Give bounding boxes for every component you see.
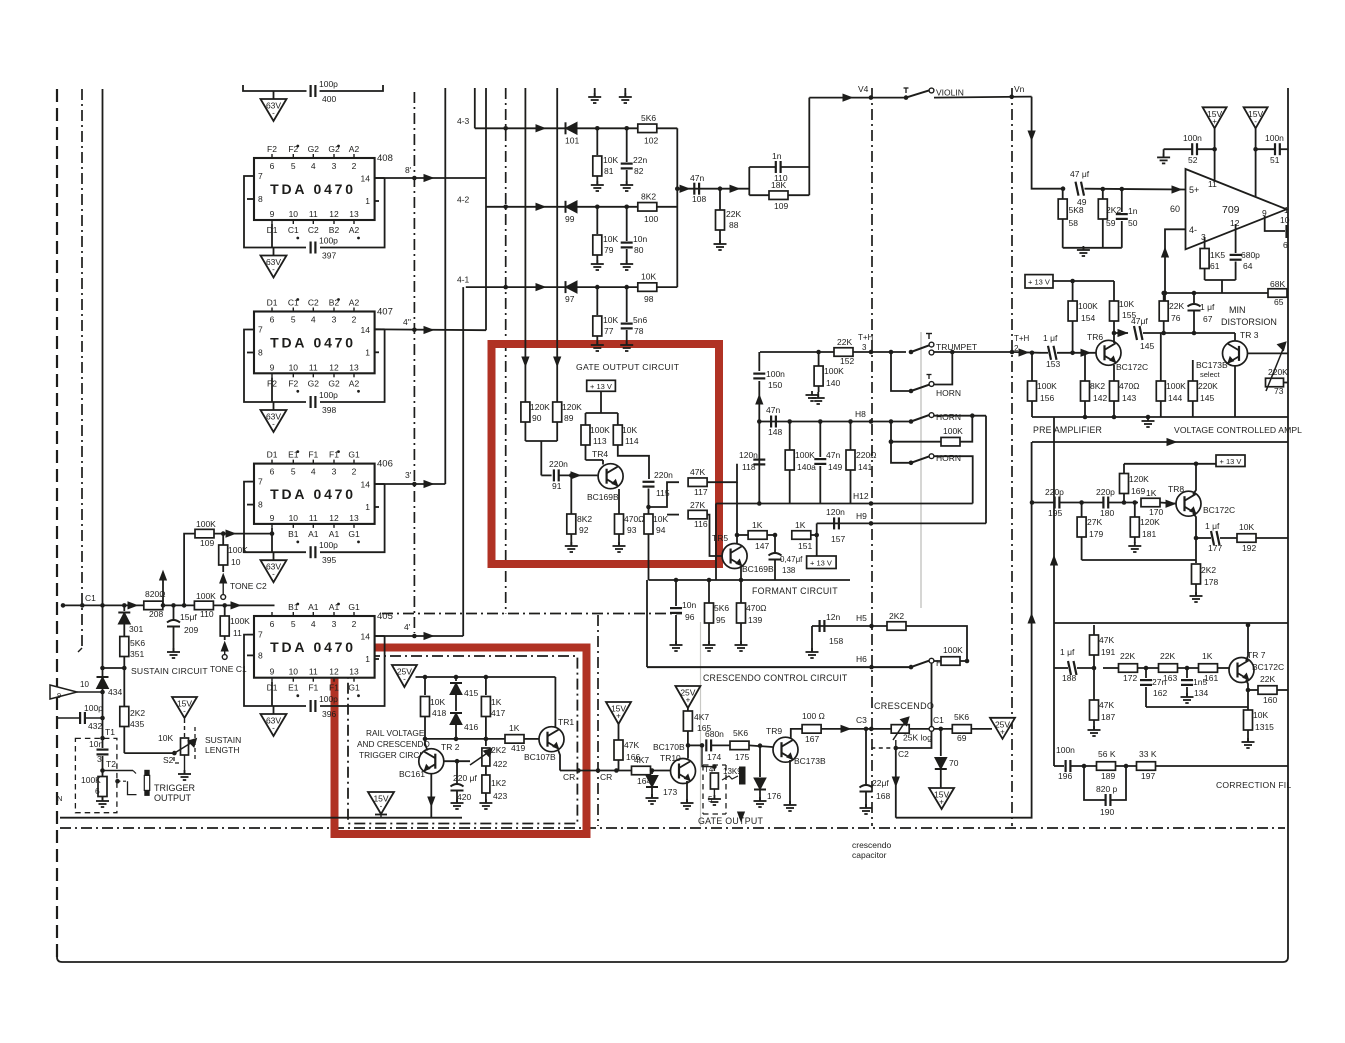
svg-text:DISTORSION: DISTORSION xyxy=(1221,317,1277,327)
svg-text:G2: G2 xyxy=(308,378,320,388)
ground under 10K 77 xyxy=(591,341,604,351)
wire gate input join xyxy=(525,441,557,475)
svg-text:10: 10 xyxy=(289,362,299,372)
IC 405 pin9 stub wire xyxy=(271,682,273,706)
svg-text:A2: A2 xyxy=(349,298,360,308)
resistor 27K 116 xyxy=(667,500,708,529)
svg-text:TR6: TR6 xyxy=(1087,332,1103,342)
wire sustain jog xyxy=(100,666,126,671)
text CRESCENDO xyxy=(874,701,934,711)
wire vca in xyxy=(1143,331,1235,336)
resistor 1K 151 xyxy=(767,520,819,551)
svg-text:A2: A2 xyxy=(349,225,360,235)
svg-text:G1: G1 xyxy=(348,450,360,460)
IC 406 pin 7 xyxy=(247,477,263,487)
svg-text:151: 151 xyxy=(798,541,812,551)
wire S2 line xyxy=(124,752,174,754)
svg-text:1: 1 xyxy=(365,196,370,206)
resistor 120K 169 xyxy=(1120,464,1150,503)
wire TR10 base xyxy=(660,770,670,772)
svg-text:A1: A1 xyxy=(329,529,340,539)
svg-text:CRESCENDO: CRESCENDO xyxy=(874,701,934,711)
svg-text:109: 109 xyxy=(774,201,788,211)
capacitor 100p 400 xyxy=(311,79,339,104)
resistor 100K 140 xyxy=(814,350,844,392)
svg-text:1K: 1K xyxy=(1146,488,1157,498)
svg-text:100p: 100p xyxy=(319,390,338,400)
text PRE AMPLIFIER xyxy=(1033,425,1102,435)
svg-text:470Ω: 470Ω xyxy=(624,514,645,524)
ground 181 xyxy=(1128,542,1141,552)
capacitor 47n 149 xyxy=(814,419,842,503)
svg-text:192: 192 xyxy=(1242,543,1256,553)
highlight box GATE OUTPUT CIRCUIT xyxy=(492,344,720,564)
svg-text:108: 108 xyxy=(692,194,706,204)
svg-text:52: 52 xyxy=(1188,155,1198,165)
wire TR1 emitter xyxy=(558,750,560,771)
svg-text:100K: 100K xyxy=(230,616,250,626)
svg-text:69: 69 xyxy=(957,733,967,743)
wire corr top xyxy=(1073,624,1075,626)
svg-text:B1: B1 xyxy=(288,529,299,539)
svg-text:H6: H6 xyxy=(856,654,867,664)
svg-text:120n: 120n xyxy=(826,507,845,517)
wire vca link xyxy=(1032,439,1288,446)
svg-text:10n: 10n xyxy=(89,739,103,749)
svg-text:27K: 27K xyxy=(1087,517,1102,527)
transistor TR8 BC172C xyxy=(1168,484,1235,516)
svg-text:OUTPUT: OUTPUT xyxy=(154,793,192,803)
svg-text:A1: A1 xyxy=(308,529,319,539)
svg-text:10K: 10K xyxy=(1119,299,1134,309)
wire rail top xyxy=(416,675,556,680)
text MIN DISTORSION xyxy=(1221,305,1277,327)
svg-text:120K: 120K xyxy=(1129,474,1149,484)
trimmer 13K9 xyxy=(700,743,719,799)
resistor 22K 152 xyxy=(834,337,854,366)
svg-text:140a: 140a xyxy=(797,462,816,472)
diode 416 xyxy=(450,713,478,739)
IC 405 top pins xyxy=(270,602,360,629)
svg-text:47K: 47K xyxy=(1099,635,1114,645)
ground 100n52 xyxy=(1157,153,1170,163)
svg-text:98: 98 xyxy=(644,294,654,304)
svg-text:T+H: T+H xyxy=(858,333,874,342)
svg-text:420: 420 xyxy=(457,792,471,802)
capacitor 100n 52 xyxy=(1164,133,1217,165)
svg-text:G2: G2 xyxy=(308,144,320,154)
svg-text:47μf: 47μf xyxy=(1131,316,1148,326)
IC 408 pin 8 xyxy=(247,194,263,204)
resistor 120K 181 xyxy=(1130,503,1160,544)
svg-text:BC170B: BC170B xyxy=(653,742,685,752)
svg-text:V4: V4 xyxy=(858,84,869,94)
text SUSTAIN LENGTH xyxy=(205,735,241,755)
svg-text:2K2: 2K2 xyxy=(130,708,145,718)
page right border xyxy=(1283,88,1288,962)
power -63V under IC 405 xyxy=(261,706,287,736)
svg-text:120K: 120K xyxy=(1140,517,1160,527)
svg-text:MIN: MIN xyxy=(1229,305,1246,315)
bus wire x1032 mid xyxy=(1031,442,1033,818)
wire preamp out xyxy=(1114,330,1128,337)
wire TR9 base xyxy=(749,743,773,748)
svg-text:220 μf: 220 μf xyxy=(453,773,477,783)
svg-text:-: - xyxy=(272,109,275,118)
wire 197 out xyxy=(1156,765,1289,767)
IC 407 pin9 stub wire xyxy=(271,377,273,402)
svg-text:100p: 100p xyxy=(84,703,103,713)
svg-text:25K log: 25K log xyxy=(903,733,932,743)
svg-text:423: 423 xyxy=(493,791,507,801)
IC 407 pin marks xyxy=(296,298,360,393)
svg-text:22K: 22K xyxy=(1120,651,1135,661)
svg-text:100K: 100K xyxy=(1166,381,1186,391)
svg-text:-: - xyxy=(1254,117,1257,126)
power 15V bottom xyxy=(368,792,394,818)
svg-text:190: 190 xyxy=(1100,807,1114,817)
svg-text:11: 11 xyxy=(309,667,318,677)
svg-text:11: 11 xyxy=(309,362,318,372)
svg-text:195: 195 xyxy=(1048,508,1062,518)
svg-text:TR 7: TR 7 xyxy=(1247,650,1266,660)
svg-text:BC161: BC161 xyxy=(399,769,425,779)
IC TDA 0470 (408) box xyxy=(254,153,393,220)
svg-text:68K: 68K xyxy=(1270,279,1285,289)
wire gate cap line xyxy=(688,744,704,746)
wire 191 top xyxy=(1093,624,1095,626)
svg-text:9: 9 xyxy=(270,513,275,523)
wire TR10 collector xyxy=(686,743,691,758)
power +15V opamp xyxy=(1203,107,1227,128)
node C1 xyxy=(929,715,944,731)
text CORRECTION FILTER xyxy=(1216,780,1291,790)
svg-text:64: 64 xyxy=(1243,261,1253,271)
svg-text:+: + xyxy=(939,798,944,807)
svg-text:470Ω: 470Ω xyxy=(1119,381,1140,391)
svg-text:152: 152 xyxy=(840,356,854,366)
svg-text:100K: 100K xyxy=(228,545,248,555)
svg-text:S2: S2 xyxy=(163,755,174,765)
svg-text:1 μf: 1 μf xyxy=(1205,521,1220,531)
diode 99 xyxy=(565,201,577,224)
resistor 120K 89 xyxy=(553,402,582,441)
svg-text:CR: CR xyxy=(563,772,575,782)
capacitor 220p 195 xyxy=(1045,487,1064,518)
svg-text:14: 14 xyxy=(361,325,371,335)
transistor TR1 BC107B xyxy=(524,717,574,762)
svg-text:197: 197 xyxy=(1141,771,1155,781)
resistor 4K7 164 xyxy=(632,755,652,786)
diode 101 xyxy=(565,122,579,145)
resistor 100K 140a xyxy=(785,419,816,503)
resistor 100R 167 xyxy=(802,711,825,744)
svg-text:8: 8 xyxy=(258,500,263,510)
svg-text:Vn: Vn xyxy=(1014,84,1025,94)
svg-text:+: + xyxy=(1212,117,1217,126)
svg-text:-: - xyxy=(272,570,275,579)
wire 161-TR7 xyxy=(1218,667,1230,669)
resistor 22K 172 xyxy=(1103,651,1138,683)
resistor 8K2 100 xyxy=(638,191,659,224)
IC 408 pin marks xyxy=(296,145,360,240)
resistor 470R 143 xyxy=(1110,381,1140,417)
svg-text:10: 10 xyxy=(231,557,241,567)
svg-text:12: 12 xyxy=(329,513,339,523)
resistor 22K 88 xyxy=(716,186,742,244)
ground 187 xyxy=(1088,726,1101,736)
svg-text:C2: C2 xyxy=(308,225,319,235)
svg-text:3: 3 xyxy=(332,161,337,171)
svg-text:TR9: TR9 xyxy=(766,726,782,736)
wire violin line xyxy=(809,84,906,101)
power 25V gate xyxy=(675,686,700,708)
resistor 2K2 435 xyxy=(120,707,146,754)
svg-text:139: 139 xyxy=(748,615,762,625)
svg-text:100p: 100p xyxy=(319,236,338,246)
svg-text:F2: F2 xyxy=(288,378,298,388)
svg-text:175: 175 xyxy=(735,752,749,762)
svg-text:100K: 100K xyxy=(590,425,610,435)
wire T+H2 arrow xyxy=(1012,349,1041,356)
svg-text:170: 170 xyxy=(1149,507,1163,517)
svg-text:1K: 1K xyxy=(491,697,502,707)
svg-text:140: 140 xyxy=(826,378,840,388)
svg-text:1 μf: 1 μf xyxy=(1060,647,1075,657)
svg-text:100K: 100K xyxy=(795,450,815,460)
svg-text:8: 8 xyxy=(258,194,263,204)
svg-text:11: 11 xyxy=(1208,179,1217,189)
svg-text:BC169B: BC169B xyxy=(587,492,619,502)
svg-text:G1: G1 xyxy=(348,602,360,612)
pot 220K 73 xyxy=(1266,342,1289,396)
IC 408 pin 14 xyxy=(361,174,385,184)
svg-text:4: 4 xyxy=(311,161,316,171)
svg-text:13: 13 xyxy=(349,362,359,372)
text N xyxy=(57,794,62,803)
svg-text:90: 90 xyxy=(532,413,542,423)
wire TR2 base wiper xyxy=(443,759,470,764)
partition dash-dot line x598 xyxy=(597,615,599,826)
capacitor 47uF 49 xyxy=(1070,169,1090,207)
svg-text:22n: 22n xyxy=(633,155,647,165)
svg-text:1: 1 xyxy=(365,502,370,512)
ground under 22K 88 xyxy=(714,240,727,250)
ground under 10K 81 xyxy=(591,181,604,191)
svg-text:432: 432 xyxy=(88,721,102,731)
svg-text:CR: CR xyxy=(600,772,612,782)
svg-text:9: 9 xyxy=(270,667,275,677)
svg-text:8K2: 8K2 xyxy=(577,514,592,524)
ground stub top b xyxy=(619,88,632,103)
transistor TR10 BC170B xyxy=(653,742,696,784)
rail-voltage module dash-dot box xyxy=(348,656,577,824)
wire TR8 collector xyxy=(1193,464,1196,495)
svg-text:176: 176 xyxy=(767,791,781,801)
wire block divider xyxy=(1054,622,1288,624)
svg-text:187: 187 xyxy=(1101,712,1115,722)
svg-text:8: 8 xyxy=(258,348,263,358)
switch HORN 1 xyxy=(909,375,961,399)
diode 70 xyxy=(935,729,959,788)
svg-text:47n: 47n xyxy=(690,173,704,183)
ground 12n158 xyxy=(806,626,819,658)
svg-text:T1: T1 xyxy=(105,727,115,737)
resistor 47K 191 xyxy=(1090,625,1116,668)
svg-text:160: 160 xyxy=(1263,695,1277,705)
resistor 10K 94 xyxy=(644,514,668,560)
svg-text:1: 1 xyxy=(1284,205,1289,215)
svg-text:100p: 100p xyxy=(319,79,338,89)
svg-text:3: 3 xyxy=(332,467,337,477)
svg-text:10: 10 xyxy=(289,513,299,523)
wire TR4 collector xyxy=(586,445,604,465)
svg-text:A1: A1 xyxy=(308,602,319,612)
svg-text:138: 138 xyxy=(782,566,796,575)
svg-text:680p: 680p xyxy=(1241,250,1260,260)
wire TR8 emitter xyxy=(1193,513,1198,560)
diode 97 xyxy=(565,281,577,304)
wire to 25V xyxy=(971,728,992,730)
resistor 10K 155 xyxy=(1110,281,1137,333)
wire TR3 emitter xyxy=(1230,363,1235,417)
bus wire x1054 xyxy=(1051,417,1058,766)
svg-text:5n6: 5n6 xyxy=(633,315,647,325)
wire preamp rail xyxy=(1053,279,1114,284)
IC 408 pin 1 xyxy=(365,196,379,206)
capacitor 1n5 134 xyxy=(1181,668,1208,698)
switch VIOLIN xyxy=(904,88,964,100)
wire filter bottom xyxy=(1063,248,1122,250)
capacitor 10n 3 xyxy=(89,738,109,770)
pot 25K log xyxy=(873,717,932,743)
svg-text:1n: 1n xyxy=(1128,206,1138,216)
node 4-1 line xyxy=(457,275,677,291)
svg-text:65: 65 xyxy=(1274,297,1284,307)
svg-text:BC169B: BC169B xyxy=(742,564,774,574)
resistor 10K 79 xyxy=(593,205,619,265)
capacitor 220n 91 xyxy=(549,459,568,491)
svg-text:179: 179 xyxy=(1089,529,1103,539)
svg-text:416: 416 xyxy=(464,722,478,732)
ground TR10 xyxy=(681,799,694,809)
svg-text:58: 58 xyxy=(1069,218,1079,228)
wire TR2 emitter xyxy=(425,739,428,751)
wire 196-189 xyxy=(1070,764,1096,769)
svg-text:61: 61 xyxy=(1210,261,1220,271)
IC 407 pin 1 xyxy=(365,347,379,357)
diode 176 xyxy=(754,746,781,801)
svg-text:67: 67 xyxy=(1203,314,1213,324)
svg-text:H12: H12 xyxy=(853,491,869,501)
svg-text:93: 93 xyxy=(627,525,637,535)
capacitor 1n 110 xyxy=(772,151,788,183)
wire TR9 collector xyxy=(791,729,802,739)
svg-text:102: 102 xyxy=(644,135,658,145)
ground under 10n 96 xyxy=(670,641,683,651)
svg-text:99: 99 xyxy=(565,214,575,224)
capacitor 47n 148 xyxy=(766,405,782,437)
svg-text:22K: 22K xyxy=(726,209,741,219)
svg-text:6: 6 xyxy=(270,315,275,325)
svg-text:LENGTH: LENGTH xyxy=(205,745,239,755)
wire TR1 collector xyxy=(554,677,556,728)
svg-text:C1: C1 xyxy=(288,225,299,235)
svg-text:22K: 22K xyxy=(1160,651,1175,661)
svg-text:88: 88 xyxy=(729,220,739,230)
svg-text:10K: 10K xyxy=(641,272,656,282)
svg-text:91: 91 xyxy=(552,481,562,491)
diode 415 xyxy=(450,677,478,711)
wire pin4 feedback xyxy=(1162,229,1186,301)
wire arrow branch a xyxy=(160,571,167,608)
svg-text:77: 77 xyxy=(604,326,614,336)
svg-text:14: 14 xyxy=(361,632,371,642)
wire corr bottom xyxy=(1054,765,1064,767)
IC 406 pin 1 xyxy=(365,502,379,512)
svg-text:A2: A2 xyxy=(349,144,360,154)
svg-text:220p: 220p xyxy=(1096,487,1115,497)
ground 22uF 168 xyxy=(860,804,873,814)
capacitor 100p 398 xyxy=(311,390,339,415)
svg-text:47n: 47n xyxy=(766,405,780,415)
svg-text:C2: C2 xyxy=(308,298,319,308)
wire 15Vp rail xyxy=(1214,128,1216,180)
wire violin out xyxy=(934,84,1032,99)
svg-text:11: 11 xyxy=(309,513,318,523)
resistor 10K 114 xyxy=(613,425,639,446)
wire 47K117 branch xyxy=(649,482,680,507)
svg-text:422: 422 xyxy=(493,759,507,769)
wire TR6 emitter xyxy=(1113,363,1114,381)
svg-text:150: 150 xyxy=(768,380,782,390)
svg-text:396: 396 xyxy=(322,709,336,719)
svg-text:T+H: T+H xyxy=(1014,334,1030,343)
svg-text:TR1: TR1 xyxy=(558,717,574,727)
svg-text:TDA 0470: TDA 0470 xyxy=(270,486,356,502)
svg-text:N: N xyxy=(57,794,62,803)
svg-text:168: 168 xyxy=(876,791,890,801)
svg-text:4: 4 xyxy=(311,315,316,325)
svg-text:100 Ω: 100 Ω xyxy=(802,711,825,721)
resistor 1K2 423 xyxy=(482,775,508,803)
svg-text:10K: 10K xyxy=(603,234,618,244)
svg-text:120n: 120n xyxy=(739,450,758,460)
svg-text:100n: 100n xyxy=(1056,745,1075,755)
ground under cap 80 xyxy=(620,260,633,270)
svg-text:SUSTAIN CIRCUIT: SUSTAIN CIRCUIT xyxy=(131,666,208,676)
ground under 8K2 92 xyxy=(565,542,578,552)
svg-text:110: 110 xyxy=(200,609,214,619)
svg-text:G2: G2 xyxy=(328,378,340,388)
svg-text:143: 143 xyxy=(1122,393,1136,403)
wire TR7 collector xyxy=(1246,623,1251,661)
svg-text:144: 144 xyxy=(1168,393,1182,403)
capacitor 680n 174 xyxy=(705,729,724,762)
svg-text:220K: 220K xyxy=(1198,381,1218,391)
wire feedback 162 xyxy=(1146,706,1248,708)
wire horn3 out xyxy=(934,456,973,503)
wire 120K89 feed xyxy=(554,357,561,412)
svg-text:14: 14 xyxy=(361,174,371,184)
svg-text:94: 94 xyxy=(656,525,666,535)
svg-text:TR 3: TR 3 xyxy=(1240,330,1259,340)
svg-text:3: 3 xyxy=(332,619,337,629)
svg-text:TONE C1: TONE C1 xyxy=(210,664,247,674)
svg-text:3: 3 xyxy=(97,754,102,764)
capacitor 15uF 209 xyxy=(167,605,198,652)
jack trigger output xyxy=(144,770,149,796)
